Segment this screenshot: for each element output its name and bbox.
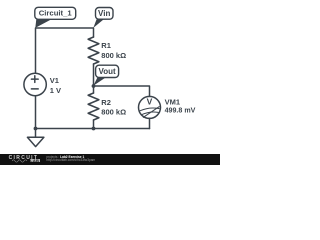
svg-text:499.8 mV: 499.8 mV (165, 107, 196, 115)
svg-text:Circuit_1: Circuit_1 (39, 9, 73, 18)
svg-text:R1: R1 (101, 41, 111, 50)
svg-text:V1: V1 (50, 76, 59, 85)
svg-text:Vin: Vin (98, 9, 110, 18)
svg-text:VM1: VM1 (165, 97, 180, 106)
svg-text:R2: R2 (101, 98, 111, 107)
svg-text:Vout: Vout (99, 67, 117, 76)
svg-text:1 V: 1 V (50, 86, 61, 95)
svg-text:800 kΩ: 800 kΩ (101, 51, 126, 60)
svg-text:V: V (147, 97, 153, 107)
svg-text:800 kΩ: 800 kΩ (101, 108, 126, 117)
